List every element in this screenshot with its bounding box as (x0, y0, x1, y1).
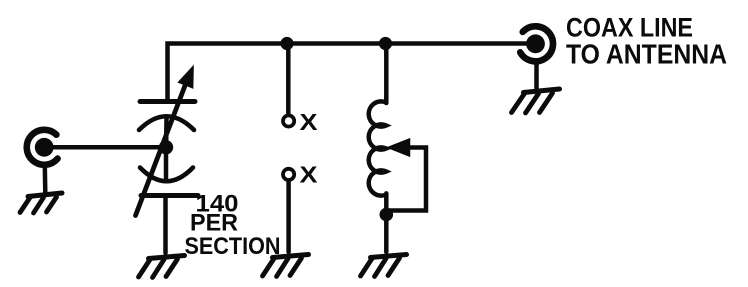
svg-text:TO ANTENNA: TO ANTENNA (566, 38, 727, 69)
wire inductor to ground (384, 193, 389, 252)
wire J1 to capacitor rotor node (52, 145, 165, 150)
ground below J1 (20, 193, 62, 213)
wire J2 to ground (534, 63, 539, 89)
node A: bus junction dot (link branch) (280, 37, 293, 50)
svg-text:X: X (300, 162, 319, 188)
svg-text:X: X (300, 109, 319, 135)
node B: bus junction dot (inductor branch) (379, 37, 392, 50)
value label: 140 PER SECTION (185, 191, 281, 261)
wire bus to terminal X1 (286, 44, 291, 114)
node C: tap-strap junction dot (380, 208, 394, 222)
label COAX LINE TO ANTENNA (566, 12, 727, 69)
wire capacitor to ground (163, 198, 168, 253)
ground below inductor (361, 255, 407, 277)
terminal X1 (open circle) (283, 115, 294, 126)
coax connector J2 (antenna output) (520, 26, 553, 61)
inductor L1 (369, 101, 387, 195)
ground below J2 (512, 89, 560, 113)
ground below X link (263, 255, 309, 277)
ground below capacitor (139, 256, 185, 278)
svg-text:SECTION: SECTION (185, 233, 281, 260)
coax connector J1 (transmitter input) (27, 130, 58, 165)
tap arrow into L1 (388, 139, 410, 156)
capacitor C1 split-stator, bottom section (140, 152, 198, 196)
wire terminal X2 to ground (286, 181, 291, 253)
wire bus to inductor (384, 44, 389, 104)
wire J1 to ground (43, 166, 48, 193)
tap strap wire (389, 148, 426, 211)
terminal X2 (open circle) (283, 169, 294, 180)
capacitor C1 split-stator, top section (139, 102, 195, 143)
node: rotor junction dot (159, 140, 173, 154)
variable-capacitor arrow (136, 68, 193, 216)
top bus wire (168, 44, 529, 102)
